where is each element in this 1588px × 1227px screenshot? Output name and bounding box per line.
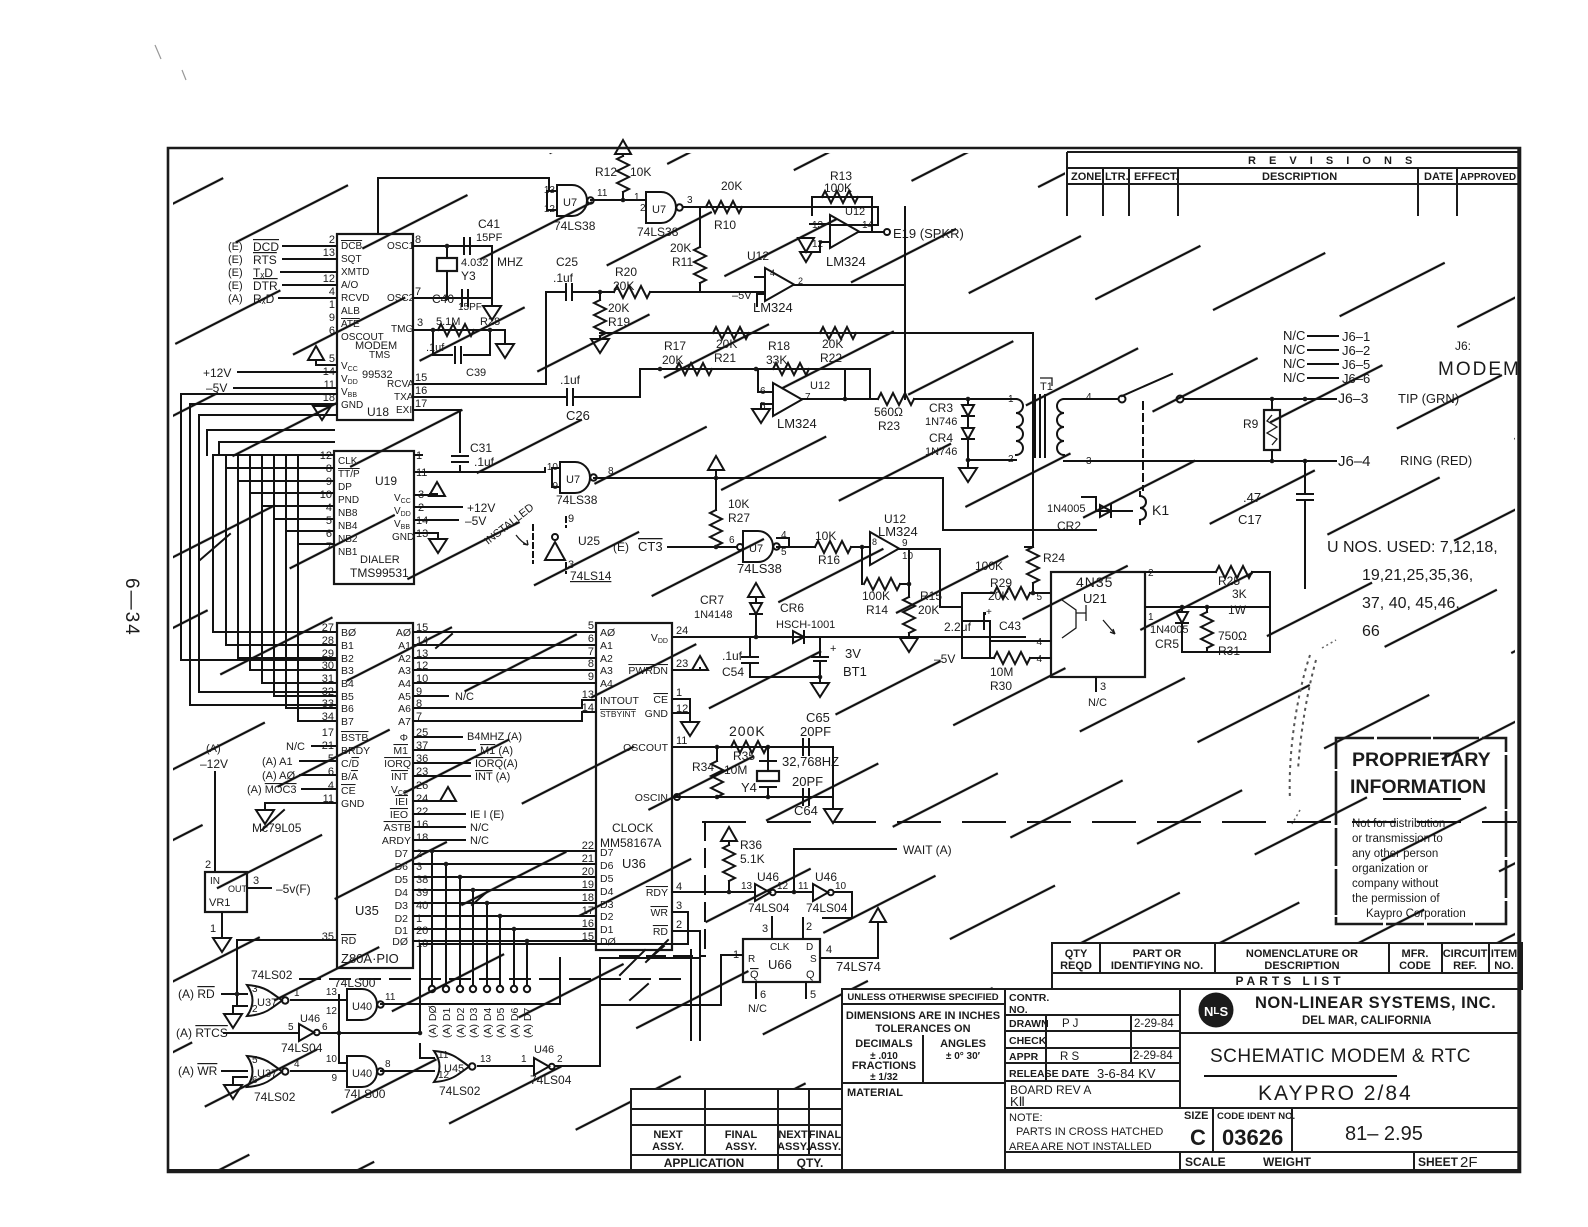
svg-text:66: 66: [1362, 623, 1380, 640]
svg-text:13: 13: [812, 220, 824, 231]
svg-text:18: 18: [416, 832, 428, 844]
svg-text:QTY: QTY: [1065, 948, 1088, 960]
svg-text:(E): (E): [228, 280, 243, 292]
svg-text:2: 2: [557, 1054, 563, 1065]
svg-text:CR4: CR4: [929, 431, 953, 445]
svg-text:FRACTIONS: FRACTIONS: [852, 1060, 916, 1072]
svg-text:OSC2: OSC2: [387, 293, 415, 304]
svg-text:D4: D4: [395, 887, 409, 899]
svg-text:.1uf: .1uf: [553, 271, 574, 285]
svg-text:U7: U7: [749, 543, 763, 555]
svg-text:RING (RED): RING (RED): [1400, 453, 1472, 468]
svg-text:.1uf: .1uf: [426, 342, 445, 354]
svg-text:13: 13: [741, 881, 753, 892]
svg-text:3: 3: [252, 984, 258, 995]
svg-text:organization or: organization or: [1352, 863, 1428, 875]
svg-text:TMS99531: TMS99531: [350, 566, 409, 580]
svg-text:5: 5: [781, 547, 787, 558]
svg-text:C40: C40: [432, 292, 454, 306]
svg-text:OSCOUT: OSCOUT: [623, 742, 669, 754]
svg-text:1: 1: [210, 923, 216, 935]
svg-text:8: 8: [415, 234, 421, 246]
svg-text:11: 11: [597, 188, 608, 199]
svg-text:15PF: 15PF: [458, 302, 482, 313]
svg-text:4: 4: [328, 780, 334, 792]
svg-text:R21: R21: [714, 351, 736, 365]
svg-text:74LS38: 74LS38: [737, 561, 782, 576]
svg-text:20K: 20K: [716, 337, 737, 351]
svg-text:9: 9: [329, 312, 335, 324]
svg-text:3: 3: [417, 317, 423, 329]
svg-text:99532: 99532: [362, 369, 393, 381]
svg-text:A7: A7: [398, 716, 411, 728]
svg-text:C41: C41: [478, 217, 500, 231]
svg-text:A1: A1: [398, 640, 411, 652]
svg-text:3: 3: [253, 875, 259, 887]
svg-text:TₓD: TₓD: [253, 266, 273, 280]
svg-text:U46: U46: [815, 870, 837, 884]
svg-text:OSCIN: OSCIN: [635, 792, 668, 804]
svg-text:PARTS IN CROSS HATCHED: PARTS IN CROSS HATCHED: [1016, 1126, 1163, 1138]
svg-text:the permission of: the permission of: [1352, 893, 1440, 905]
svg-text:UNLESS OTHERWISE SPECIFIED: UNLESS OTHERWISE SPECIFIED: [847, 992, 998, 1003]
svg-text:GND: GND: [392, 532, 414, 543]
svg-text:NO.: NO.: [1494, 960, 1514, 972]
svg-text:A2: A2: [600, 653, 613, 665]
svg-text:N/C: N/C: [748, 1003, 767, 1015]
svg-text:4: 4: [826, 944, 832, 956]
svg-text:DATE: DATE: [1424, 171, 1453, 183]
svg-text:74LS38: 74LS38: [556, 493, 598, 507]
svg-text:C26: C26: [566, 408, 590, 423]
svg-text:31: 31: [322, 673, 334, 685]
svg-text:3V: 3V: [845, 646, 861, 661]
svg-text:6—34: 6—34: [121, 578, 142, 637]
svg-text:5: 5: [329, 353, 335, 365]
svg-text:2: 2: [1148, 568, 1154, 579]
svg-text:NB1: NB1: [338, 547, 358, 558]
svg-text:IDENTIFYING NO.: IDENTIFYING NO.: [1111, 960, 1203, 972]
svg-text:1N4005: 1N4005: [1150, 624, 1189, 636]
svg-text:R36: R36: [740, 838, 762, 852]
svg-text:20PF: 20PF: [792, 774, 823, 789]
svg-text:C65: C65: [806, 710, 830, 725]
svg-text:10: 10: [902, 551, 914, 562]
svg-text:GND: GND: [341, 400, 363, 411]
svg-text:Not for distribution: Not for distribution: [1352, 818, 1445, 830]
svg-text:NO.: NO.: [1009, 1004, 1028, 1016]
svg-text:N/C: N/C: [1088, 697, 1107, 709]
svg-text:81– 2.95: 81– 2.95: [1345, 1123, 1423, 1145]
svg-text:20K: 20K: [608, 301, 629, 315]
svg-text:ALB: ALB: [341, 306, 360, 317]
svg-text:RₓD: RₓD: [253, 292, 275, 306]
svg-text:74LS04: 74LS04: [806, 901, 848, 915]
svg-text:DØ: DØ: [600, 936, 616, 948]
svg-text:C: C: [1190, 1125, 1206, 1150]
svg-text:Q: Q: [806, 969, 815, 981]
svg-text:74LS38: 74LS38: [554, 219, 596, 233]
svg-text:100K: 100K: [824, 181, 852, 195]
svg-text:4.032: 4.032: [461, 257, 489, 269]
svg-text:TXA: TXA: [394, 392, 414, 403]
svg-text:APPROVED: APPROVED: [1460, 172, 1516, 183]
svg-text:ARDY: ARDY: [382, 835, 411, 847]
svg-text:8: 8: [385, 1059, 391, 1070]
svg-text:15PF: 15PF: [476, 232, 503, 244]
svg-text:R11: R11: [672, 255, 693, 269]
svg-text:Φ: Φ: [400, 732, 408, 744]
svg-text:company without: company without: [1352, 878, 1439, 890]
svg-text:R10: R10: [714, 218, 736, 232]
svg-text:DECIMALS: DECIMALS: [855, 1038, 912, 1050]
svg-text:RCVD: RCVD: [341, 293, 369, 304]
svg-text:PART OR: PART OR: [1133, 948, 1182, 960]
svg-text:10: 10: [326, 1054, 338, 1065]
svg-text:MHZ: MHZ: [497, 255, 523, 269]
svg-text:RD: RD: [653, 926, 669, 938]
svg-text:R35: R35: [733, 749, 755, 763]
svg-text:WR: WR: [651, 907, 669, 919]
svg-text:74LS14: 74LS14: [570, 569, 612, 583]
svg-text:ZONE: ZONE: [1071, 171, 1102, 183]
svg-text:M1 (A): M1 (A): [480, 745, 513, 757]
svg-text:Y4: Y4: [741, 780, 757, 795]
svg-text:16: 16: [416, 819, 428, 831]
svg-text:1: 1: [1148, 612, 1154, 623]
svg-text:12: 12: [323, 273, 335, 285]
svg-text:R20: R20: [615, 265, 637, 279]
svg-text:11: 11: [385, 992, 396, 1003]
svg-text:U46: U46: [300, 1013, 320, 1025]
svg-text:74LS04: 74LS04: [748, 901, 790, 915]
svg-text:MFR.: MFR.: [1402, 948, 1429, 960]
svg-text:10K: 10K: [815, 529, 836, 543]
svg-text:4: 4: [770, 268, 775, 278]
svg-text:26: 26: [416, 780, 428, 792]
svg-text:CODE IDENT NO.: CODE IDENT NO.: [1217, 1111, 1295, 1122]
svg-text:6: 6: [760, 989, 766, 1001]
svg-text:(A) D3: (A) D3: [468, 1008, 480, 1038]
svg-text:NB2: NB2: [338, 534, 358, 545]
svg-text:B2: B2: [341, 653, 354, 665]
svg-text:(E): (E): [613, 540, 629, 554]
svg-text:REQD: REQD: [1060, 960, 1092, 972]
svg-text:BRDY: BRDY: [341, 745, 370, 757]
svg-text:(A) MOC3: (A) MOC3: [247, 784, 297, 796]
svg-text:NOMENCLATURE OR: NOMENCLATURE OR: [1246, 948, 1358, 960]
svg-text:(A) AØ: (A) AØ: [262, 770, 295, 782]
svg-text:9: 9: [568, 513, 574, 525]
svg-text:1: 1: [521, 1054, 527, 1065]
svg-text:OSC1: OSC1: [387, 241, 415, 252]
svg-text:–12V: –12V: [200, 757, 228, 771]
svg-text:11: 11: [438, 1050, 449, 1061]
svg-text:1N746: 1N746: [925, 446, 957, 458]
svg-text:SCALE: SCALE: [1185, 1155, 1226, 1169]
svg-text:–5V: –5V: [934, 652, 955, 666]
svg-text:D1: D1: [600, 924, 614, 936]
svg-text:1: 1: [294, 988, 300, 999]
svg-text:CLOCK: CLOCK: [612, 821, 653, 835]
svg-text:DTR: DTR: [253, 279, 278, 293]
svg-text:(A) D7: (A) D7: [522, 1008, 534, 1038]
svg-text:A1: A1: [600, 640, 613, 652]
svg-text:7: 7: [326, 541, 332, 553]
svg-text:N/C: N/C: [455, 691, 474, 703]
svg-text:A4: A4: [398, 678, 411, 690]
svg-text:DCB: DCB: [341, 241, 362, 252]
svg-text:A6: A6: [398, 703, 411, 715]
svg-text:J6–3: J6–3: [1338, 390, 1369, 406]
svg-text:Kaypro Corporation: Kaypro Corporation: [1366, 908, 1466, 920]
svg-text:23: 23: [676, 658, 688, 670]
svg-text:10: 10: [320, 489, 332, 501]
svg-text:6: 6: [252, 1075, 258, 1086]
svg-text:6: 6: [322, 1022, 328, 1033]
svg-text:C43: C43: [999, 619, 1021, 633]
svg-text:34: 34: [322, 711, 334, 723]
svg-text:N/C: N/C: [1283, 370, 1305, 385]
svg-text:CE: CE: [653, 694, 668, 706]
svg-text:NLS: NLS: [1204, 1004, 1229, 1019]
svg-text:APPLICATION: APPLICATION: [664, 1156, 744, 1170]
svg-text:(A) WR: (A) WR: [178, 1064, 218, 1078]
svg-text:CIRCUIT: CIRCUIT: [1443, 948, 1488, 960]
svg-text:APPR: APPR: [1009, 1051, 1039, 1063]
svg-text:QTY.: QTY.: [797, 1156, 824, 1170]
svg-text:D2: D2: [600, 911, 614, 923]
svg-text:R19: R19: [608, 315, 630, 329]
svg-text:74LS04: 74LS04: [530, 1073, 572, 1087]
svg-text:–5V: –5V: [206, 381, 227, 395]
svg-text:.1uf: .1uf: [722, 649, 743, 663]
svg-text:R E V I S I O N S: R E V I S I O N S: [1248, 155, 1417, 167]
svg-text:DIMENSIONS ARE IN INCHES: DIMENSIONS ARE IN INCHES: [846, 1010, 1000, 1022]
svg-text:Mc79L05: Mc79L05: [252, 821, 302, 835]
svg-text:K1: K1: [1152, 502, 1169, 518]
svg-text:R27: R27: [728, 511, 750, 525]
svg-text:P J: P J: [1062, 1018, 1078, 1030]
svg-text:24: 24: [676, 625, 688, 637]
svg-text:40: 40: [416, 900, 428, 912]
svg-text:MODEM: MODEM: [355, 340, 397, 352]
svg-text:D: D: [806, 942, 813, 953]
svg-text:9: 9: [331, 1073, 337, 1084]
svg-text:M1: M1: [393, 745, 408, 757]
svg-text:(A) D2: (A) D2: [455, 1008, 467, 1038]
svg-text:WEIGHT: WEIGHT: [1263, 1155, 1312, 1169]
svg-text:27: 27: [322, 622, 334, 634]
svg-text:(A) D4: (A) D4: [482, 1008, 494, 1038]
svg-text:4: 4: [1086, 392, 1092, 403]
svg-text:A/O: A/O: [341, 280, 358, 291]
svg-text:R17: R17: [664, 339, 686, 353]
svg-text:B4: B4: [341, 678, 354, 690]
svg-text:750Ω: 750Ω: [1218, 629, 1247, 643]
svg-text:A3: A3: [600, 665, 613, 677]
svg-text:KAYPRO 2/84: KAYPRO 2/84: [1258, 1082, 1413, 1105]
svg-text:(A) A1: (A) A1: [262, 756, 293, 768]
svg-text:CODE: CODE: [1399, 960, 1431, 972]
svg-text:37, 40, 45,46,: 37, 40, 45,46,: [1362, 595, 1460, 612]
svg-text:9: 9: [588, 671, 594, 683]
svg-text:WAIT (A): WAIT (A): [903, 843, 952, 857]
svg-text:5: 5: [1036, 592, 1042, 603]
svg-text:U25: U25: [578, 534, 600, 548]
svg-text:BØ: BØ: [341, 627, 356, 639]
svg-text:4: 4: [326, 502, 332, 514]
svg-text:RELEASE DATE: RELEASE DATE: [1009, 1068, 1089, 1080]
svg-text:2: 2: [252, 1004, 258, 1015]
svg-text:IEO: IEO: [390, 809, 408, 821]
svg-text:–5v(F): –5v(F): [276, 882, 311, 896]
svg-text:N/C: N/C: [1283, 356, 1305, 371]
svg-text:4N35: 4N35: [1076, 574, 1113, 590]
svg-text:J6–4: J6–4: [1338, 453, 1371, 470]
svg-text:NB4: NB4: [338, 521, 358, 532]
svg-text:D7: D7: [395, 848, 409, 860]
svg-text:17: 17: [322, 727, 334, 739]
svg-text:B3: B3: [341, 665, 354, 677]
svg-text:(A) RD: (A) RD: [178, 987, 215, 1001]
svg-text:TMG: TMG: [391, 324, 413, 335]
svg-text:DØ: DØ: [392, 936, 408, 948]
svg-text:74LS38: 74LS38: [637, 225, 679, 239]
svg-text:AØ: AØ: [396, 627, 411, 639]
svg-text:5: 5: [326, 515, 332, 527]
svg-text:7: 7: [805, 392, 811, 403]
svg-text:5: 5: [328, 753, 334, 765]
svg-text:8: 8: [872, 537, 877, 547]
svg-text:1N4148: 1N4148: [694, 609, 733, 621]
svg-text:KⅡ: KⅡ: [1010, 1094, 1025, 1109]
svg-text:XMTD: XMTD: [341, 267, 369, 278]
svg-text:DESCRIPTION: DESCRIPTION: [1264, 960, 1339, 972]
svg-text:29: 29: [322, 648, 334, 660]
svg-text:or transmission to: or transmission to: [1352, 833, 1443, 845]
svg-text:J6–1: J6–1: [1342, 329, 1370, 344]
svg-text:CR3: CR3: [929, 401, 953, 415]
svg-text:6: 6: [729, 535, 735, 546]
svg-text:N/C: N/C: [286, 741, 305, 753]
svg-text:33: 33: [322, 698, 334, 710]
svg-text:12: 12: [438, 1070, 450, 1081]
svg-text:.47: .47: [1243, 490, 1261, 505]
svg-text:3: 3: [762, 923, 768, 935]
svg-text:ASSY.: ASSY.: [725, 1141, 757, 1153]
svg-text:2: 2: [806, 921, 812, 933]
svg-text:C64: C64: [794, 803, 818, 818]
svg-text:RD: RD: [341, 935, 357, 947]
svg-text:(A) RTCS: (A) RTCS: [176, 1026, 228, 1040]
svg-text:GND: GND: [341, 798, 365, 810]
svg-text:MATERIAL: MATERIAL: [847, 1087, 903, 1099]
svg-text:NOTE:: NOTE:: [1009, 1112, 1043, 1124]
svg-text:.1uf: .1uf: [560, 373, 581, 387]
svg-text:J6–5: J6–5: [1342, 357, 1370, 372]
svg-text:74LS00: 74LS00: [344, 1087, 386, 1101]
svg-text:MODEM: MODEM: [1438, 359, 1521, 380]
svg-text:20K: 20K: [721, 179, 742, 193]
svg-text:U66: U66: [768, 957, 792, 972]
svg-text:5: 5: [810, 989, 816, 1001]
svg-text:100K: 100K: [975, 559, 1003, 573]
svg-text:8: 8: [588, 658, 594, 670]
svg-text:IORQ(A): IORQ(A): [475, 758, 518, 770]
svg-text:2F: 2F: [1460, 1154, 1478, 1171]
svg-text:B7: B7: [341, 716, 354, 728]
svg-text:4: 4: [1036, 637, 1042, 648]
svg-text:E19 (SPKR): E19 (SPKR): [893, 226, 964, 241]
svg-text:12: 12: [812, 239, 824, 250]
svg-text:U12: U12: [845, 206, 865, 218]
svg-text:39: 39: [416, 887, 428, 899]
svg-text:RDY: RDY: [646, 887, 668, 899]
svg-text:A2: A2: [398, 653, 411, 665]
svg-text:74LS04: 74LS04: [281, 1041, 323, 1055]
svg-text:ANGLES: ANGLES: [940, 1038, 986, 1050]
svg-text:4: 4: [1036, 654, 1042, 665]
svg-text:28: 28: [322, 635, 334, 647]
svg-text:R22: R22: [820, 351, 842, 365]
svg-text:(A): (A): [228, 293, 243, 305]
svg-text:INFORMATION: INFORMATION: [1350, 776, 1486, 798]
svg-text:3: 3: [676, 900, 682, 912]
svg-text:SHEET: SHEET: [1418, 1155, 1459, 1169]
svg-text:(A) D5: (A) D5: [495, 1008, 507, 1038]
svg-text:Q: Q: [750, 969, 759, 981]
svg-text:16: 16: [415, 385, 427, 397]
svg-text:6: 6: [588, 633, 594, 645]
svg-text:± 1/32: ± 1/32: [870, 1072, 898, 1083]
svg-text:2: 2: [676, 919, 682, 931]
svg-text:D5: D5: [395, 874, 409, 886]
svg-text:CR7: CR7: [700, 593, 724, 607]
svg-text:20K: 20K: [662, 353, 683, 367]
svg-text:Y3: Y3: [461, 269, 476, 283]
svg-text:20K: 20K: [670, 241, 691, 255]
svg-text:C54: C54: [722, 665, 744, 679]
svg-text:R16: R16: [818, 553, 840, 567]
svg-text:19,21,25,35,36,: 19,21,25,35,36,: [1362, 567, 1473, 584]
svg-text:GND: GND: [645, 708, 669, 720]
svg-text:OUT: OUT: [228, 884, 248, 894]
svg-text:D3: D3: [600, 899, 614, 911]
svg-text:1N4005: 1N4005: [1047, 503, 1086, 515]
svg-text:11: 11: [324, 379, 335, 391]
svg-text:R34: R34: [692, 760, 714, 774]
svg-text:U40: U40: [352, 1068, 372, 1080]
svg-text:CE: CE: [341, 785, 356, 797]
svg-text:35: 35: [322, 931, 334, 943]
svg-text:FINAL: FINAL: [725, 1129, 758, 1141]
svg-text:PROPRIETARY: PROPRIETARY: [1352, 749, 1491, 771]
svg-text:13: 13: [480, 1054, 492, 1065]
svg-text:STBYINT: STBYINT: [600, 709, 636, 719]
svg-text:1N746: 1N746: [925, 416, 957, 428]
svg-text:HSCH-1001: HSCH-1001: [776, 619, 835, 631]
svg-text:IN: IN: [210, 876, 220, 887]
svg-text:2: 2: [205, 859, 211, 871]
svg-text:03626: 03626: [1222, 1125, 1283, 1150]
svg-text:A3: A3: [398, 665, 411, 677]
svg-text:VR1: VR1: [209, 897, 230, 909]
svg-text:R30: R30: [990, 679, 1012, 693]
svg-text:10M: 10M: [724, 763, 747, 777]
svg-text:1: 1: [676, 687, 682, 699]
svg-text:J6–6: J6–6: [1342, 371, 1370, 386]
